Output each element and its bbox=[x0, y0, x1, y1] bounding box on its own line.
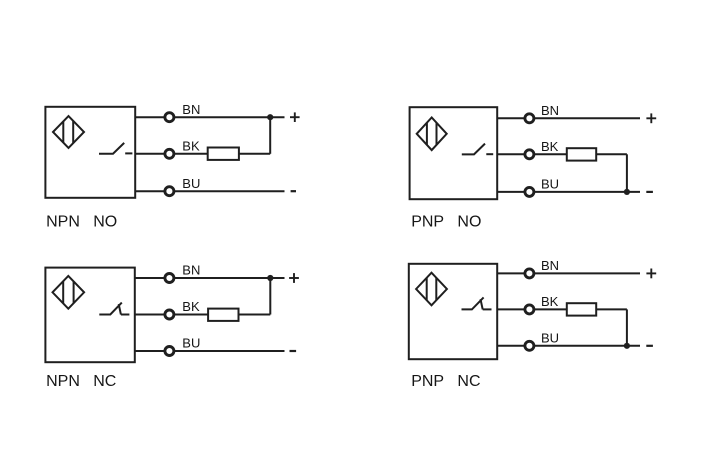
svg-text:BU: BU bbox=[541, 330, 559, 345]
svg-text:BU: BU bbox=[182, 176, 200, 191]
svg-text:BN: BN bbox=[541, 258, 559, 273]
svg-text:BN: BN bbox=[182, 102, 200, 117]
svg-text:BN: BN bbox=[541, 103, 559, 118]
svg-text:BK: BK bbox=[182, 299, 200, 314]
svg-text:PNP NC: PNP NC bbox=[411, 373, 480, 390]
svg-text:BU: BU bbox=[182, 336, 200, 351]
svg-text:BK: BK bbox=[541, 294, 559, 309]
svg-text:BN: BN bbox=[182, 263, 200, 278]
svg-text:NPN NC: NPN NC bbox=[46, 373, 116, 390]
svg-text:BK: BK bbox=[541, 139, 559, 154]
svg-text:PNP NO: PNP NO bbox=[411, 214, 481, 231]
svg-text:BU: BU bbox=[541, 177, 559, 192]
svg-text:BK: BK bbox=[182, 138, 200, 153]
svg-text:NPN NO: NPN NO bbox=[46, 214, 117, 231]
